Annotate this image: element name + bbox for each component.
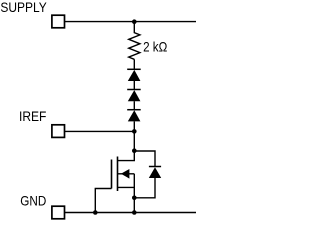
svg-text:2 kΩ: 2 kΩ bbox=[143, 40, 167, 55]
wire D2 to D3 bbox=[133, 101, 135, 110]
wire D4 anode to source node bbox=[134, 178, 155, 198]
diode D3 bbox=[127, 110, 141, 122]
transistor Q1 gate bar bbox=[111, 160, 113, 189]
svg-text:IREF: IREF bbox=[19, 109, 46, 124]
wire drain node to D4 cathode bbox=[134, 151, 155, 166]
wire gate lead to GND bbox=[95, 189, 111, 213]
junction node A (supply/resistor) bbox=[132, 19, 137, 24]
diode D4 bbox=[149, 167, 161, 179]
junction node drain bbox=[132, 148, 137, 153]
transistor Q1 drain lead bbox=[118, 151, 135, 161]
wire GND rail bbox=[65, 212, 196, 214]
diode D2 bbox=[127, 90, 141, 102]
diode D1 bbox=[127, 69, 141, 81]
wire IREF lead bbox=[65, 130, 135, 132]
terminal IREF bbox=[52, 125, 65, 138]
transistor Q1 body lead with arrow bbox=[118, 169, 135, 179]
resistor R1 bbox=[129, 22, 140, 60]
junction node IREF bbox=[132, 129, 137, 134]
wire IREF node to drain node bbox=[133, 131, 135, 150]
wire SUPPLY rail bbox=[65, 21, 196, 23]
terminal GND bbox=[52, 206, 65, 219]
junction gate-GND bbox=[93, 210, 98, 215]
junction node source bbox=[132, 196, 137, 201]
svg-text:SUPPLY: SUPPLY bbox=[0, 0, 46, 15]
terminal SUPPLY bbox=[52, 15, 65, 28]
wire resistor to D1 bbox=[133, 59, 135, 69]
wire D3 to node IREF bbox=[133, 121, 135, 131]
transistor Q1 channel bbox=[117, 157, 119, 192]
wire source node to GND rail bbox=[133, 198, 135, 213]
wire body to source node bbox=[133, 174, 135, 198]
wire D1 to D2 bbox=[133, 81, 135, 90]
junction source-GND bbox=[132, 210, 137, 215]
svg-text:GND: GND bbox=[20, 193, 46, 208]
transistor Q1 source lead bbox=[118, 186, 135, 188]
